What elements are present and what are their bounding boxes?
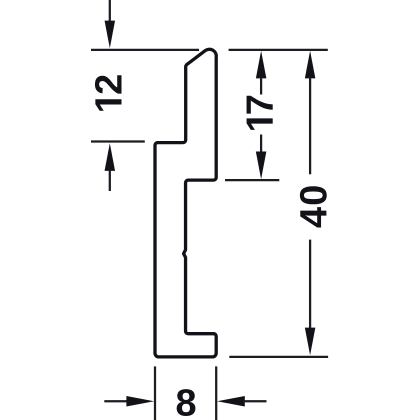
dimension 12 bottom arrowhead [105, 143, 116, 171]
dimension 17 bottom arrow tail [260, 135, 262, 154]
dimension 17 top arrow tail [260, 77, 262, 95]
extension line at 12 bottom [91, 140, 145, 142]
extension line 8 left [154, 366, 156, 420]
dimension 12 top arrowhead [105, 21, 116, 49]
dimension 8 left arrowhead [126, 396, 154, 407]
extension line at 40 bottom [229, 356, 328, 358]
dimension 40 upper tail [309, 77, 311, 174]
profile cross-section outline [155, 49, 216, 357]
dimension text 8 [177, 389, 196, 416]
extension line top (right segment) [229, 49, 328, 51]
dimension 12 bottom arrow tail [109, 170, 111, 192]
dimension 17 top arrowhead [256, 51, 267, 79]
dimension 17 bottom arrowhead [256, 152, 267, 180]
dimension text 40 [300, 186, 327, 227]
extension line top (left segment) [91, 49, 199, 51]
dimension 40 top arrowhead [305, 51, 316, 79]
dimension 8 right arrow tail [243, 400, 267, 402]
dimension 8 right arrowhead [217, 396, 245, 407]
dimension 8 left arrow tail [104, 400, 128, 402]
dimension text 12 [95, 75, 122, 110]
dimension 40 bottom arrowhead [305, 328, 316, 356]
extension line at 17 bottom [225, 179, 279, 181]
dimension text 17 [247, 96, 273, 130]
extension line 8 right [215, 366, 217, 420]
dimension 40 lower tail [309, 240, 311, 329]
dimension 12 top arrow tail [109, 0, 111, 21]
